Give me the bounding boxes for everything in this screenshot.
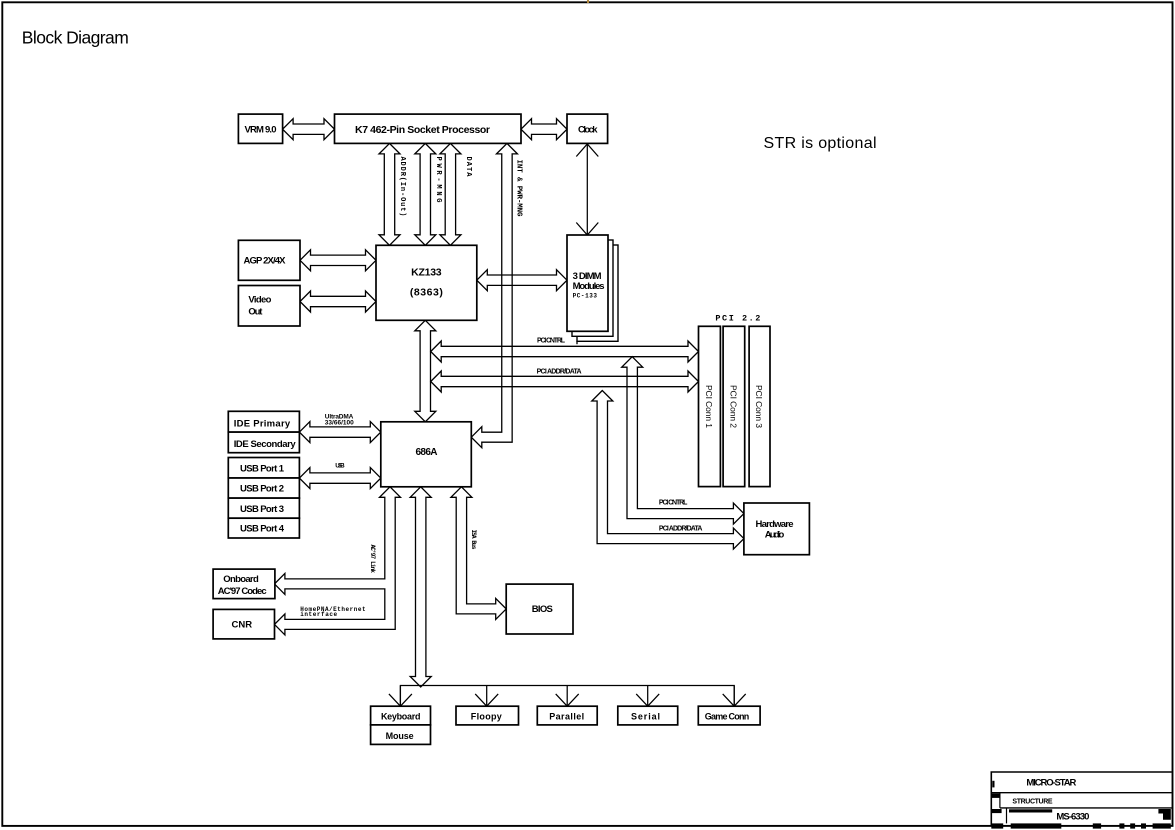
block CNR xyxy=(213,609,274,639)
svg-text:AGP 2X/4X: AGP 2X/4X xyxy=(244,255,287,266)
svg-text:686A: 686A xyxy=(416,447,438,458)
bus PCI CNTRL to Hardware Audio xyxy=(622,357,744,524)
wire drop to Keyboard xyxy=(399,686,401,707)
svg-text:ISA Bus: ISA Bus xyxy=(470,530,477,550)
bus VideoOut-KZ133 xyxy=(300,291,376,312)
block 686A xyxy=(381,422,472,487)
bus 686A-BIOS ISA xyxy=(451,487,506,620)
title block scale bar xyxy=(991,823,1003,828)
block PCI Conn 3 xyxy=(749,326,770,486)
bus AGP-KZ133 xyxy=(300,250,376,271)
svg-text:Mouse: Mouse xyxy=(386,731,414,741)
bus PCI ADDR/DATA to Hardware Audio xyxy=(592,391,744,550)
svg-text:K7 462-Pin Socket Processor: K7 462-Pin Socket Processor xyxy=(355,124,490,136)
block AGP 2X/4X xyxy=(238,240,300,280)
block K7 462-Pin Socket Processor xyxy=(335,114,522,143)
svg-text:Hardware: Hardware xyxy=(756,519,794,530)
bus USB-686A xyxy=(299,468,380,489)
svg-text:Onboard: Onboard xyxy=(223,574,259,585)
block Floopy xyxy=(456,706,519,725)
svg-text:USB Port 4: USB Port 4 xyxy=(240,524,285,535)
svg-text:PCI Conn 2: PCI Conn 2 xyxy=(728,385,738,428)
svg-text:33/66/100: 33/66/100 xyxy=(325,419,354,426)
bus K7-KZ133 DATA xyxy=(440,143,461,245)
line Clock-DIMM xyxy=(586,144,588,235)
svg-text:KZ133: KZ133 xyxy=(411,266,442,278)
bus INT-PWR-MNG K7-686A xyxy=(471,143,517,447)
svg-text:INT & PWR-MNG: INT & PWR-MNG xyxy=(515,160,523,217)
block Parallel xyxy=(537,706,597,725)
svg-text:USB Port 2: USB Port 2 xyxy=(240,484,284,495)
block Clock xyxy=(567,114,608,143)
block Game Conn xyxy=(698,706,760,725)
block 3 DIMM Modules xyxy=(567,235,608,331)
block Keyboard xyxy=(371,706,431,725)
bus K7-KZ133 ADDR xyxy=(379,143,400,245)
svg-text:PCI 2.2: PCI 2.2 xyxy=(715,313,760,323)
svg-text:USB Port 1: USB Port 1 xyxy=(240,463,285,474)
bus K7-Clock xyxy=(521,119,567,140)
block USB Port 4 xyxy=(228,518,299,538)
svg-text:Floopy: Floopy xyxy=(471,711,502,721)
block USB Port 2 xyxy=(228,478,299,498)
svg-text:DATA: DATA xyxy=(464,157,472,178)
svg-text:IDE Secondary: IDE Secondary xyxy=(234,439,297,450)
svg-text:Clock: Clock xyxy=(578,125,598,136)
wire drop to Game Conn xyxy=(733,686,735,707)
block Serial xyxy=(618,706,678,725)
svg-text:PCI CNTRL: PCI CNTRL xyxy=(659,499,688,506)
bus KZ133-DIMM xyxy=(477,270,567,291)
svg-text:AC'97 Link: AC'97 Link xyxy=(369,545,376,574)
bus 686A-AC97/CNR xyxy=(275,487,401,635)
svg-text:USB Port 3: USB Port 3 xyxy=(240,504,284,515)
block USB Port 1 xyxy=(228,458,299,479)
svg-text:Out: Out xyxy=(248,306,263,317)
svg-text:PC-133: PC-133 xyxy=(573,293,598,300)
svg-text:Game Conn: Game Conn xyxy=(705,711,750,721)
block Video Out xyxy=(238,286,300,327)
svg-text:Parallel: Parallel xyxy=(549,711,584,721)
wire drop to Serial xyxy=(647,686,649,707)
svg-text:MS-6330: MS-6330 xyxy=(1056,812,1089,823)
bus VRM-K7 xyxy=(283,119,335,140)
block Hardware Audio xyxy=(744,503,810,555)
svg-text:BIOS: BIOS xyxy=(532,604,553,615)
svg-text:Audio: Audio xyxy=(765,530,785,541)
block VRM 9.0 xyxy=(238,114,282,143)
svg-text:Serial: Serial xyxy=(631,711,660,721)
block IDE Secondary xyxy=(228,432,299,453)
svg-text:CNR: CNR xyxy=(232,620,253,631)
svg-text:ADDR(In-Out): ADDR(In-Out) xyxy=(398,157,406,217)
block PCI Conn 1 xyxy=(699,326,721,486)
svg-text:PCI ADDR/DATA: PCI ADDR/DATA xyxy=(659,525,703,532)
title block frame xyxy=(991,772,1171,826)
svg-text:Block Diagram: Block Diagram xyxy=(22,28,129,48)
svg-text:MICRO-STAR: MICRO-STAR xyxy=(1026,778,1076,789)
bus PCI CNTRL xyxy=(431,341,699,362)
svg-text:VRM 9.0: VRM 9.0 xyxy=(245,125,277,136)
svg-text:interface: interface xyxy=(300,611,338,618)
block IDE Primary xyxy=(228,411,299,432)
bus 686A-connectors xyxy=(410,487,431,687)
title block marks xyxy=(992,781,994,788)
block Onboard AC'97 Codec xyxy=(213,569,275,599)
block BIOS xyxy=(506,584,573,634)
svg-text:Keyboard: Keyboard xyxy=(381,711,421,721)
svg-text:STRUCTURE: STRUCTURE xyxy=(1012,798,1053,805)
svg-text:PCI CNTRL: PCI CNTRL xyxy=(537,338,566,345)
wire drop to Parallel xyxy=(566,686,568,707)
title block row lines xyxy=(991,792,1171,794)
block 3 DIMM Modules shadow 1 xyxy=(572,240,613,336)
svg-text:PCI Conn 3: PCI Conn 3 xyxy=(754,385,764,428)
wire connector fanout xyxy=(400,686,734,707)
svg-text:Modules: Modules xyxy=(573,281,605,292)
block USB Port 3 xyxy=(228,498,299,518)
bus IDE-686A UltraDMA xyxy=(299,422,380,443)
svg-text:AC'97 Codec: AC'97 Codec xyxy=(218,586,267,597)
block 3 DIMM Modules shadow 2 xyxy=(577,245,618,341)
block KZ133 (8363) xyxy=(376,245,477,320)
svg-text:Video: Video xyxy=(248,294,271,305)
svg-text:STR is optional: STR is optional xyxy=(764,135,877,152)
svg-text:USB: USB xyxy=(335,463,345,470)
svg-text:PCI ADDR/DATA: PCI ADDR/DATA xyxy=(537,368,582,375)
svg-text:IDE Primary: IDE Primary xyxy=(234,419,291,430)
block PCI Conn 2 xyxy=(723,326,745,486)
svg-text:PCI Conn 1: PCI Conn 1 xyxy=(704,385,714,428)
block Mouse xyxy=(371,725,431,745)
bus PCI ADDR/DATA xyxy=(431,371,699,392)
svg-text:PWR-MNG: PWR-MNG xyxy=(434,157,442,203)
wire drop to Floopy xyxy=(486,686,488,707)
bus K7-KZ133 PWR-MNG xyxy=(415,143,436,245)
svg-text:(8363): (8363) xyxy=(410,286,443,298)
bus KZ133-686A xyxy=(415,320,436,422)
